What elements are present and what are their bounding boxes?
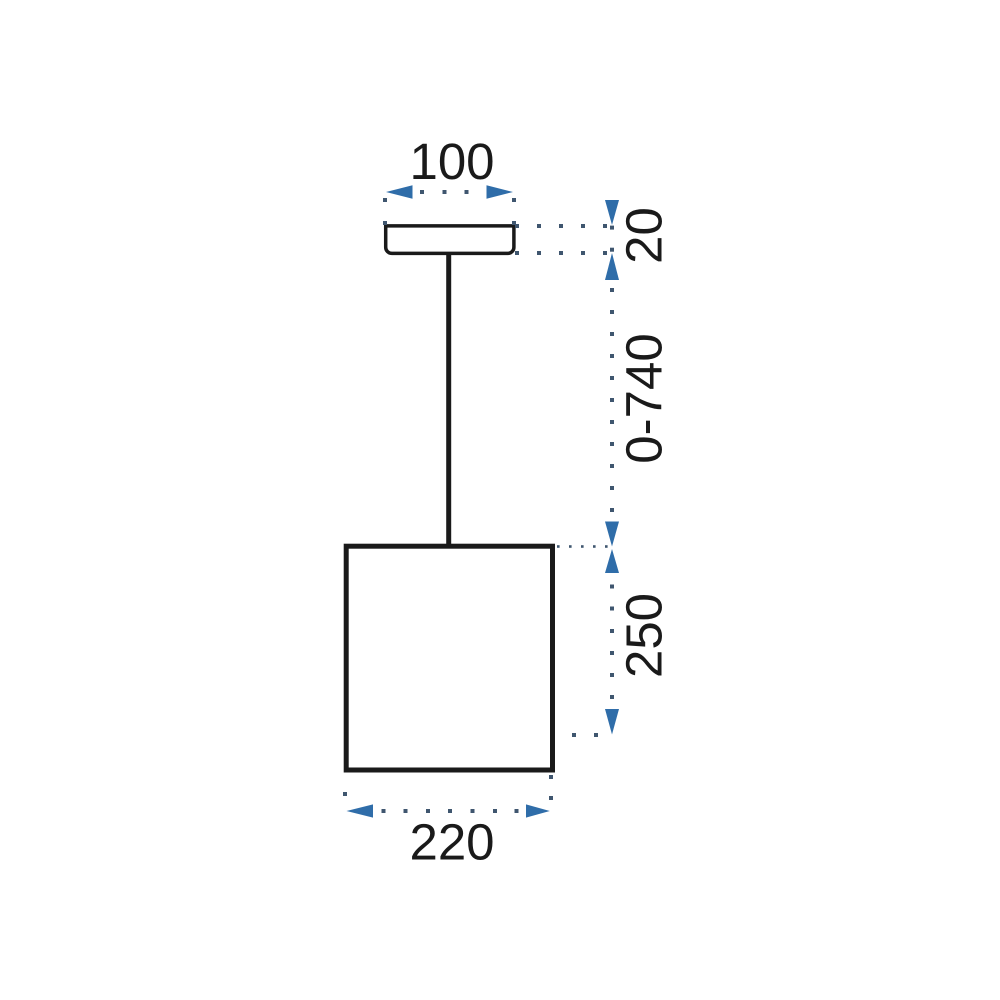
svg-text:20: 20	[616, 207, 673, 264]
svg-text:100: 100	[409, 133, 494, 190]
svg-text:0-740: 0-740	[616, 333, 673, 463]
svg-text:250: 250	[616, 593, 673, 678]
svg-text:220: 220	[409, 814, 494, 871]
